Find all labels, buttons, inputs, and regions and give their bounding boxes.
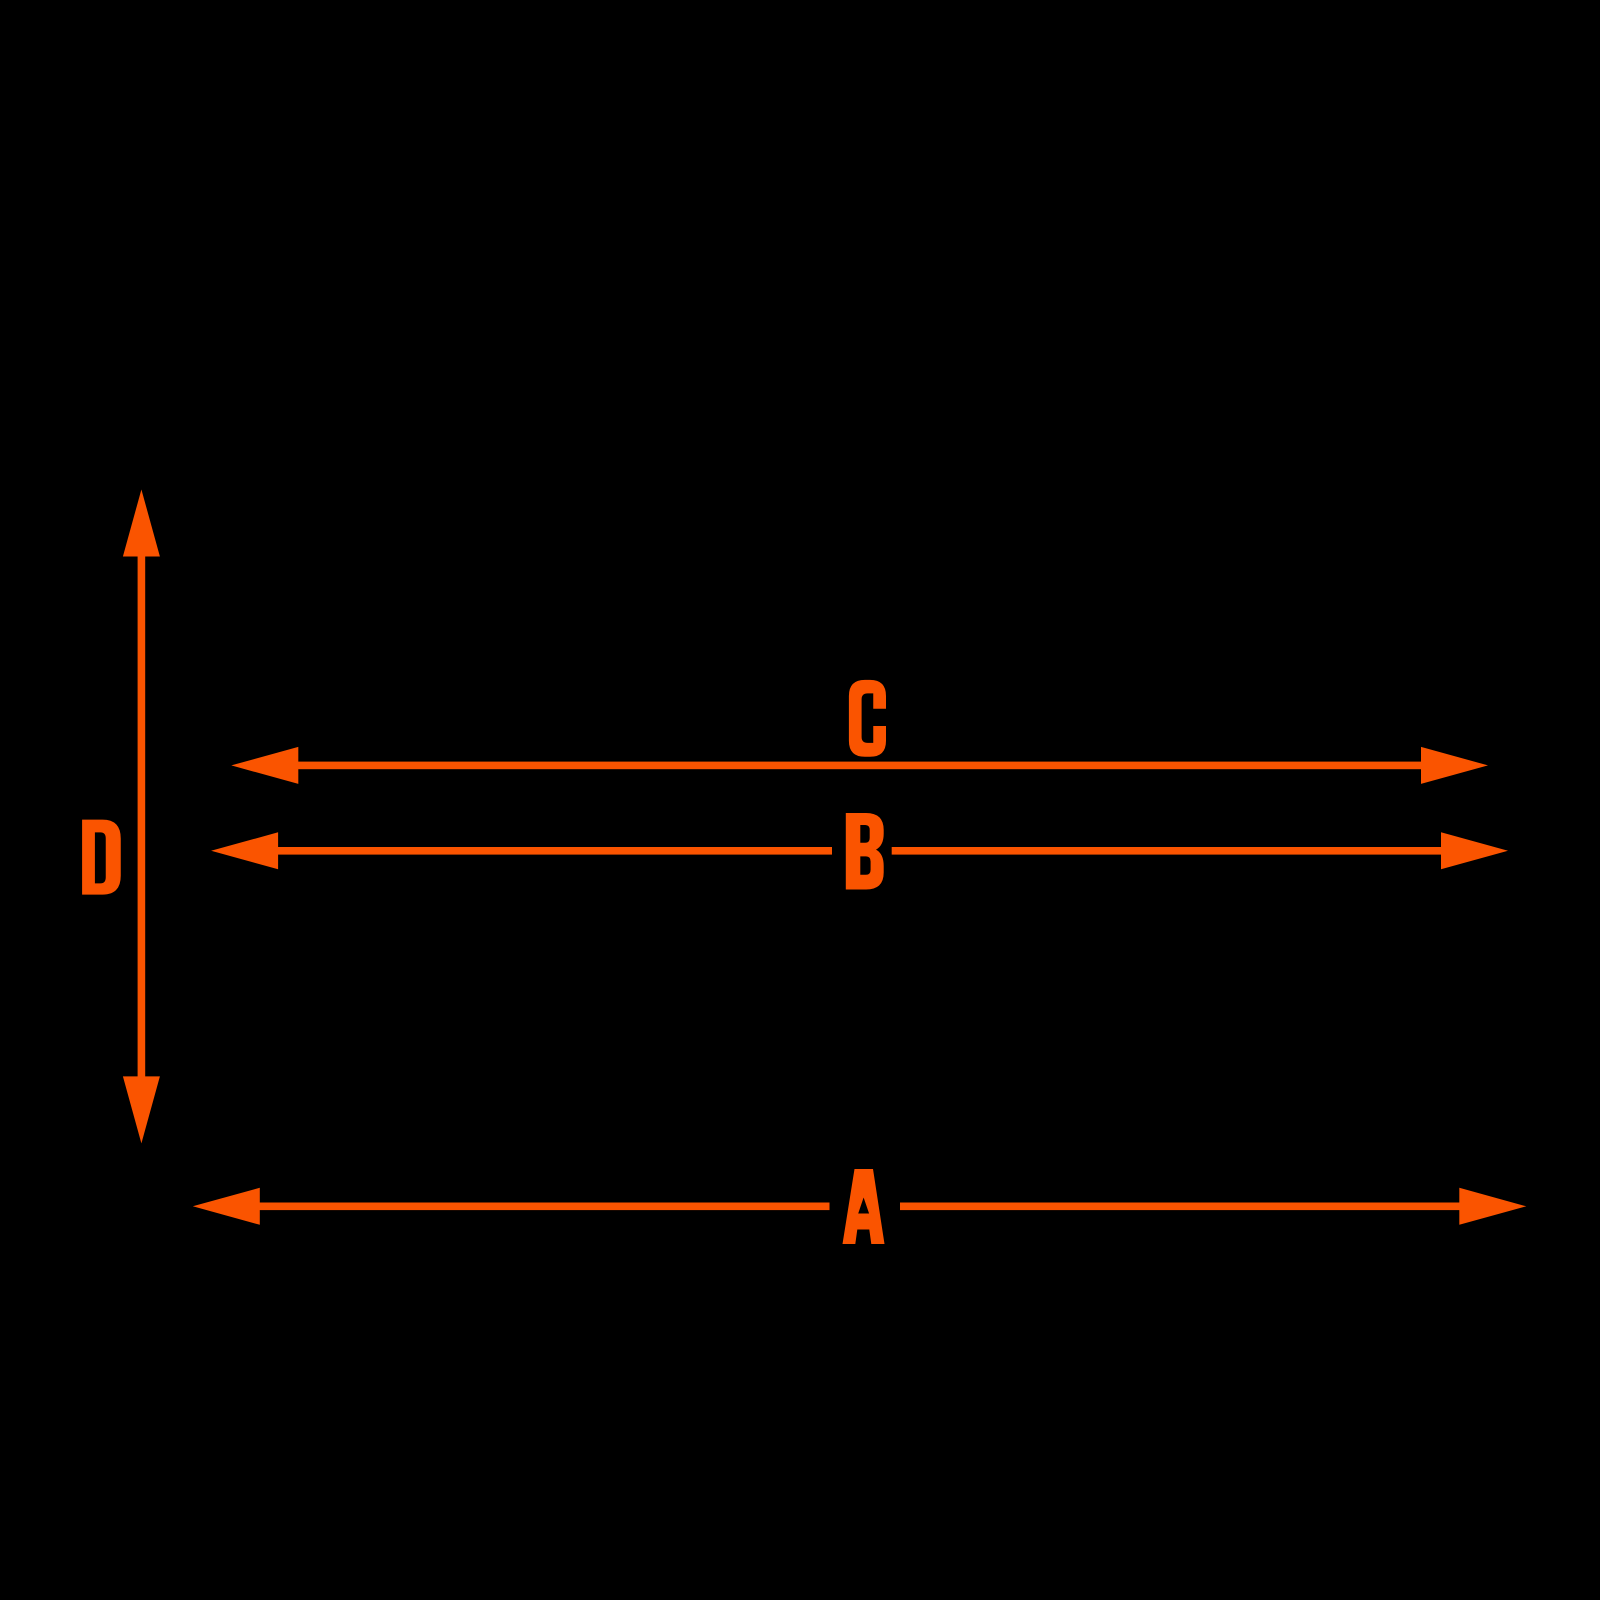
arrow A left head: [193, 1188, 260, 1225]
wire: arrow D shaft: [138, 555, 146, 1079]
dimension arrow A (horizontal double-headed, broken by label): [193, 1188, 1527, 1225]
arrow D bottom head: [123, 1076, 160, 1143]
dimension arrow B (horizontal double-headed, broken by label): [211, 832, 1508, 869]
label A: [843, 1169, 885, 1244]
wire: arrow C shaft: [295, 762, 1423, 770]
dimension arrow C (horizontal double-headed): [231, 747, 1488, 784]
label D: [82, 820, 121, 895]
arrow D top head: [123, 490, 160, 557]
wire: arrow A shaft right segment: [900, 1203, 1461, 1211]
arrow C right head: [1421, 747, 1488, 784]
wire: arrow B shaft left segment: [276, 847, 832, 855]
arrow B right head: [1441, 832, 1508, 869]
dimension arrow D (vertical double-headed): [123, 490, 160, 1144]
label C: [849, 680, 886, 757]
arrow A right head: [1459, 1188, 1526, 1225]
wire: arrow B shaft right segment: [892, 847, 1443, 855]
label B: [846, 813, 884, 890]
arrow B left head: [211, 832, 278, 869]
wire: arrow A shaft left segment: [258, 1203, 830, 1211]
arrow C left head: [231, 747, 298, 784]
